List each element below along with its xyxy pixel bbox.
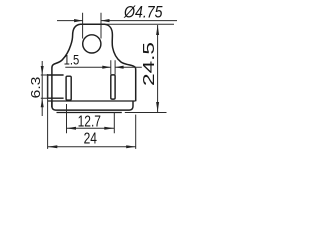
bottom lip [52,101,133,110]
1.5 extension lines [111,60,115,74]
6.3 arrows [41,66,44,75]
24.5 top extension line [107,23,175,25]
left faston tab (open right) [48,75,64,98]
1.5 dimension line [65,66,142,68]
12.7 arrows [67,127,77,130]
left slot [66,76,71,100]
lower edge line (left) [57,112,122,114]
svg-text:12.7: 12.7 [78,113,101,130]
svg-text:6.3: 6.3 [28,77,43,99]
24 arrows [48,145,58,148]
24.5 arrows [156,25,159,35]
12.7 extension lines [67,104,115,133]
dia 4.75 arrows [74,19,83,22]
1.5 arrows [102,66,111,69]
part outline (clip body with top tab) [52,24,136,107]
svg-text:Ø4.75: Ø4.75 [123,2,163,21]
24.5 dimension line [157,25,159,112]
svg-text:24.5: 24.5 [141,42,158,86]
12.7 dimension line [67,127,115,129]
6.3 dimension line [41,61,43,116]
24 right extension line [135,115,137,149]
dia 4.75 extension lines [83,13,101,39]
mounting hole [83,35,101,53]
6.3 extension lines [41,75,48,98]
24 dimension line [48,146,136,148]
svg-text:24: 24 [84,131,97,148]
right slot [111,75,115,99]
24 left extension line [47,74,49,149]
24.5 bottom extension line [125,112,167,114]
svg-text:1.5: 1.5 [64,53,80,68]
plate bottom edge [48,100,135,102]
dia 4.75 dimension line [57,20,177,22]
